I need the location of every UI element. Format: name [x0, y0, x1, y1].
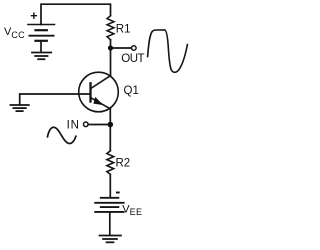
input waveform [48, 127, 76, 143]
battery VEE plate 4 long [95, 211, 123, 213]
ground below VCC line1 [32, 52, 51, 54]
wire emitter to R2 [109, 109, 111, 151]
wire R1 to collector junction [110, 40, 112, 76]
svg-text:R2: R2 [116, 158, 131, 170]
battery VEE plate 2 long [95, 202, 123, 204]
ground below VEE line3 [107, 241, 114, 243]
ground below VEE line1 [100, 235, 121, 237]
svg-text:R1: R1 [116, 24, 131, 36]
resistor R1 [107, 16, 114, 40]
battery VCC plate 4 short [36, 40, 47, 42]
wire R2 to battery VEE [109, 174, 111, 197]
battery VCC plate 2 short [36, 29, 47, 31]
wire IN terminal to emitter junction [88, 124, 110, 126]
svg-text:OUT: OUT [121, 53, 144, 65]
svg-text:IN: IN [67, 119, 80, 131]
transistor Q1 emitter lead [91, 98, 111, 109]
wire junction to OUT terminal [111, 47, 132, 49]
ground at base line3 [16, 110, 22, 112]
svg-text:+: + [30, 9, 37, 23]
battery VEE plate 1 short - [101, 197, 119, 199]
wire battery VEE to ground [109, 212, 111, 235]
junction node at IN / emitter [108, 122, 114, 128]
ground below VCC line3 [38, 58, 44, 60]
transistor Q1 collector lead [91, 76, 111, 89]
transistor Q1 base bar [89, 83, 91, 101]
terminal IN open circle [84, 122, 89, 127]
label minus (VEE) [116, 192, 120, 194]
output waveform [148, 30, 188, 72]
ground below VEE line2 [103, 238, 117, 240]
resistor R2 [107, 151, 114, 175]
battery VCC plate 1 long + [28, 24, 55, 26]
svg-text:VCC: VCC [4, 26, 25, 40]
transistor Q1 emitter arrowhead [93, 97, 103, 105]
terminal OUT open circle [132, 46, 137, 51]
ground at base line1 [10, 104, 28, 106]
ground below VCC line2 [35, 55, 47, 57]
transistor Q1 circle [79, 72, 119, 112]
ground at base line2 [13, 107, 25, 109]
wire base to ground [20, 94, 91, 105]
battery VCC plate 3 long [30, 35, 54, 37]
junction node at R1 / OUT [108, 45, 113, 50]
svg-text:Q1: Q1 [124, 85, 139, 97]
wire battery VCC to ground [40, 41, 42, 53]
battery VEE plate 3 short [101, 206, 119, 208]
wire VCC top to R1 [41, 4, 111, 24]
svg-text:VEE: VEE [122, 204, 142, 217]
